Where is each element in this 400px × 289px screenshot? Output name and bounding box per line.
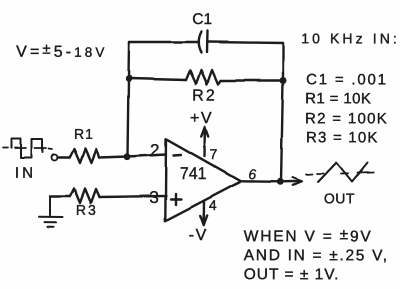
- wire: R3 to pin 3: [100, 196, 167, 197]
- resistor R1: [70, 149, 99, 163]
- wire: feedback top (C1 branch): [129, 42, 199, 44]
- op-amp U1 741 triangle: [165, 139, 241, 221]
- svg-text:OUT = ± 1V.: OUT = ± 1V.: [244, 266, 340, 283]
- wire: left vertical (node A down to pin2 node): [128, 42, 130, 157]
- wire: R2 branch left: [129, 79, 186, 81]
- wire: R1 to pin 2: [99, 155, 167, 158]
- svg-text:R3: R3: [76, 202, 98, 218]
- node: output junction: [277, 178, 284, 185]
- resistor R3: [70, 189, 100, 204]
- capacitor C1: [199, 32, 202, 53]
- wire: output (pin 6): [241, 180, 295, 183]
- svg-text:WHEN V = ±9V: WHEN V = ±9V: [244, 226, 373, 245]
- output arrowhead: [291, 178, 302, 186]
- node: feedback left junction: [125, 75, 132, 82]
- op-amp plus sign: [171, 194, 182, 205]
- svg-text:4: 4: [209, 197, 217, 213]
- svg-text:-V: -V: [189, 227, 208, 244]
- wire: R2 branch right: [221, 79, 284, 81]
- svg-text:741: 741: [180, 164, 207, 183]
- output triangle-wave symbol: [318, 163, 368, 183]
- wire: terminal to R1: [58, 156, 71, 158]
- svg-text:AND IN = ±.25 V,: AND IN = ±.25 V,: [244, 247, 389, 264]
- op-amp +V arrow (pin 7): [203, 130, 206, 156]
- ground: [49, 197, 51, 217]
- svg-text:6: 6: [248, 166, 256, 182]
- wire: right vertical (feedback to output node): [281, 43, 283, 182]
- svg-text:OUT: OUT: [324, 190, 355, 206]
- svg-text:10 KHz IN:: 10 KHz IN:: [301, 30, 400, 46]
- svg-text:C1 = .001: C1 = .001: [306, 71, 388, 88]
- svg-text:R1 = 10K: R1 = 10K: [305, 90, 371, 107]
- resistor R2: [186, 70, 221, 84]
- svg-text:2: 2: [150, 141, 160, 160]
- input terminal: [52, 154, 58, 160]
- svg-text:C1: C1: [192, 11, 212, 28]
- svg-text:+V: +V: [190, 110, 213, 127]
- svg-text:R2 = 100K: R2 = 100K: [305, 110, 388, 127]
- svg-text:7: 7: [209, 146, 217, 162]
- svg-text:R3 = 10K: R3 = 10K: [306, 129, 379, 146]
- svg-text:R2: R2: [192, 87, 217, 104]
- svg-text:V=±5-18V: V=±5-18V: [16, 41, 107, 61]
- op-amp minus sign: [174, 153, 182, 156]
- input source square-wave symbol: [12, 139, 43, 158]
- op-amp -V arrow (pin 4): [203, 202, 206, 223]
- wire: ground to R3: [50, 195, 70, 197]
- node: feedback right junction: [280, 77, 287, 84]
- node: pin-2 junction: [124, 153, 131, 160]
- svg-text:R1: R1: [74, 126, 94, 142]
- svg-text:3: 3: [149, 188, 159, 207]
- svg-text:IN: IN: [15, 165, 36, 182]
